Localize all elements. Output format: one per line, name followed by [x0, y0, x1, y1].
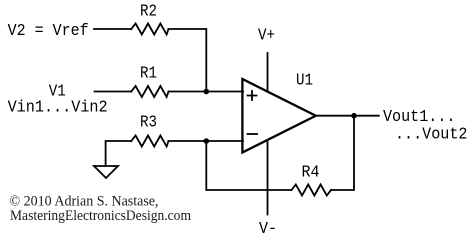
svg-text:V2 = Vref: V2 = Vref [8, 22, 89, 41]
ground [94, 166, 118, 178]
svg-text:R3: R3 [140, 114, 157, 133]
wire R3 to op-amp - input [169, 140, 244, 142]
resistor R3 [131, 136, 168, 147]
wire V+ supply [267, 53, 269, 91]
svg-text:R2: R2 [140, 3, 157, 22]
op-amp - input symbol [248, 133, 258, 135]
node A junction dot [204, 89, 210, 95]
resistor R4 [292, 185, 332, 196]
wire V1 to R1 [95, 91, 132, 93]
svg-text:...Vout2: ...Vout2 [395, 126, 468, 145]
op-amp + input symbol [248, 91, 257, 100]
resistor R2 [131, 24, 168, 35]
wire V2 to R2 [94, 28, 131, 30]
svg-text:R1: R1 [140, 65, 157, 84]
svg-text:MasteringElectronicsDesign.com: MasteringElectronicsDesign.com [10, 208, 192, 224]
wire V- supply [267, 140, 269, 214]
wire R4 to output node [331, 116, 354, 190]
wire R2 to node A [169, 29, 207, 92]
wire R1 to op-amp + input [169, 91, 244, 93]
node B junction dot [204, 138, 210, 144]
output node junction dot [351, 113, 357, 119]
wire node B to feedback [206, 141, 291, 190]
svg-text:U1: U1 [296, 72, 313, 91]
svg-text:V-: V- [259, 220, 277, 239]
op-amp U1 [242, 79, 315, 153]
svg-text:Vin1...Vin2: Vin1...Vin2 [8, 99, 108, 118]
svg-text:Vout1...: Vout1... [383, 108, 456, 127]
wire ground to R3 [106, 141, 132, 166]
svg-text:V+: V+ [258, 27, 275, 46]
svg-text:R4: R4 [302, 164, 320, 183]
wire output [316, 115, 379, 117]
resistor R1 [131, 86, 168, 97]
